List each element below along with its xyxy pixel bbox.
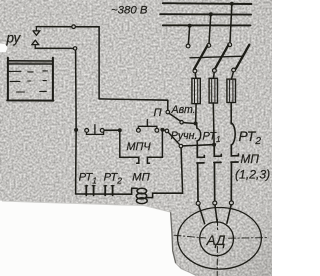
node on L3	[188, 24, 192, 28]
start button bridge	[87, 125, 104, 135]
paper edge shadow	[2, 201, 171, 212]
node on L1	[230, 2, 234, 6]
float switch upper contact (down arrow)	[33, 27, 40, 36]
switch P pole2 top contact	[207, 44, 211, 48]
white page area bottom-left (beyond clipping edge)	[0, 201, 197, 276]
wire L2 drop	[209, 14, 211, 43]
box NC contact right circle	[155, 128, 159, 132]
coil exit wire	[147, 148, 183, 198]
junction node left	[74, 128, 78, 132]
Ruchn contact circle	[165, 129, 169, 133]
motor inner circle	[200, 222, 234, 256]
wire left branch to RT row	[76, 130, 85, 194]
svg-text:МП: МП	[132, 171, 150, 183]
MP main contact pole1	[197, 145, 204, 157]
MPCh box outline	[120, 130, 163, 163]
svg-text:Ручн.: Ручн.	[171, 130, 198, 142]
pole1 heater RT1 bump	[197, 125, 201, 146]
motor lead 1	[199, 205, 205, 223]
knife blade 2	[215, 45, 229, 69]
wire left branch down	[75, 50, 78, 128]
pole1 wire to contact	[196, 145, 198, 157]
Ruchn blade	[168, 132, 180, 145]
pole2 wire below fuse	[212, 103, 215, 145]
wire RT row	[85, 188, 137, 194]
tank water surface	[9, 61, 52, 64]
motor leads terminals	[196, 201, 200, 205]
selector Avt circle	[180, 121, 183, 124]
svg-text:~380 В: ~380 В	[111, 5, 148, 17]
terminal circle on upper wire	[72, 25, 76, 29]
wire hinge1 to fuse1	[194, 73, 197, 78]
node on L2	[209, 12, 213, 16]
wire to P switch	[99, 99, 168, 100]
blade hinge 2	[213, 69, 217, 73]
motor center line vertical	[217, 220, 219, 230]
selector P common circle	[166, 110, 170, 114]
wire L3 drop	[188, 26, 189, 44]
node coil wire on pole2	[212, 143, 216, 147]
fuse F2	[209, 78, 217, 103]
wire hinge2 to fuse2	[213, 72, 216, 78]
node on pole1	[194, 122, 198, 126]
switch P pole1 top contact	[186, 44, 190, 48]
svg-text:(1,2,3): (1,2,3)	[235, 167, 270, 181]
MP main contact pole2	[214, 145, 221, 157]
terminal circle lower wire	[73, 47, 76, 50]
MP coil	[136, 188, 147, 203]
fuse F3	[227, 79, 236, 102]
motor center line horizontal	[174, 235, 206, 238]
wire Avt circle to pole1	[183, 122, 194, 125]
tank hatching	[9, 71, 47, 92]
wire to Ruchn contact	[162, 129, 165, 132]
float switch lower contact (up arrow)	[32, 40, 39, 48]
start button circle right	[100, 129, 104, 133]
wire button to box	[104, 129, 118, 131]
wire L1 drop	[230, 4, 232, 43]
switch P pole3 top contact	[228, 43, 232, 47]
box NC contact bridge	[138, 120, 157, 129]
RT1 NC contact	[86, 186, 93, 196]
tank	[7, 58, 53, 101]
wire RU upper	[36, 26, 99, 28]
motor lead 2	[215, 205, 217, 222]
selector Avt blade	[169, 113, 180, 121]
knife blade 1	[194, 46, 208, 70]
wire RU lower	[35, 47, 73, 49]
pole1 wire below fuse	[195, 104, 198, 124]
svg-text:МПЧ: МПЧ	[127, 141, 152, 153]
wire down from upper	[98, 27, 100, 99]
wire hinge3 to fuse3	[232, 72, 234, 79]
motor outer circle	[178, 208, 262, 270]
box NC contact left circle	[137, 128, 141, 132]
svg-text:Авт.: Авт.	[171, 104, 196, 116]
pole3 wire below fuse	[230, 103, 232, 125]
selector P vertical	[167, 100, 169, 110]
knife blade 3	[236, 45, 249, 69]
wire box corner	[160, 128, 164, 132]
white notch on left edge	[0, 44, 8, 53]
motor lead 3	[227, 205, 231, 223]
svg-text:МП: МП	[241, 152, 260, 166]
blade hinge 3	[232, 68, 236, 72]
coil wire to pole2	[183, 145, 213, 146]
Ruchn lower circle	[179, 144, 183, 148]
blade hinge 1	[193, 69, 197, 73]
start button circle left	[85, 129, 89, 133]
fuse F1	[192, 78, 200, 103]
phase line L2	[160, 13, 251, 15]
blade linkage bar	[190, 56, 244, 58]
RT2 NC contact	[105, 186, 112, 196]
pole3 heater RT2 bump	[231, 123, 235, 145]
svg-text:П: П	[154, 107, 163, 119]
MP main contact pole3	[231, 145, 238, 156]
svg-text:ру: ру	[6, 31, 22, 46]
node box top-left	[118, 128, 122, 132]
svg-text:АД: АД	[206, 233, 226, 248]
phase line L1	[163, 2, 252, 5]
phase line L3	[163, 24, 251, 26]
